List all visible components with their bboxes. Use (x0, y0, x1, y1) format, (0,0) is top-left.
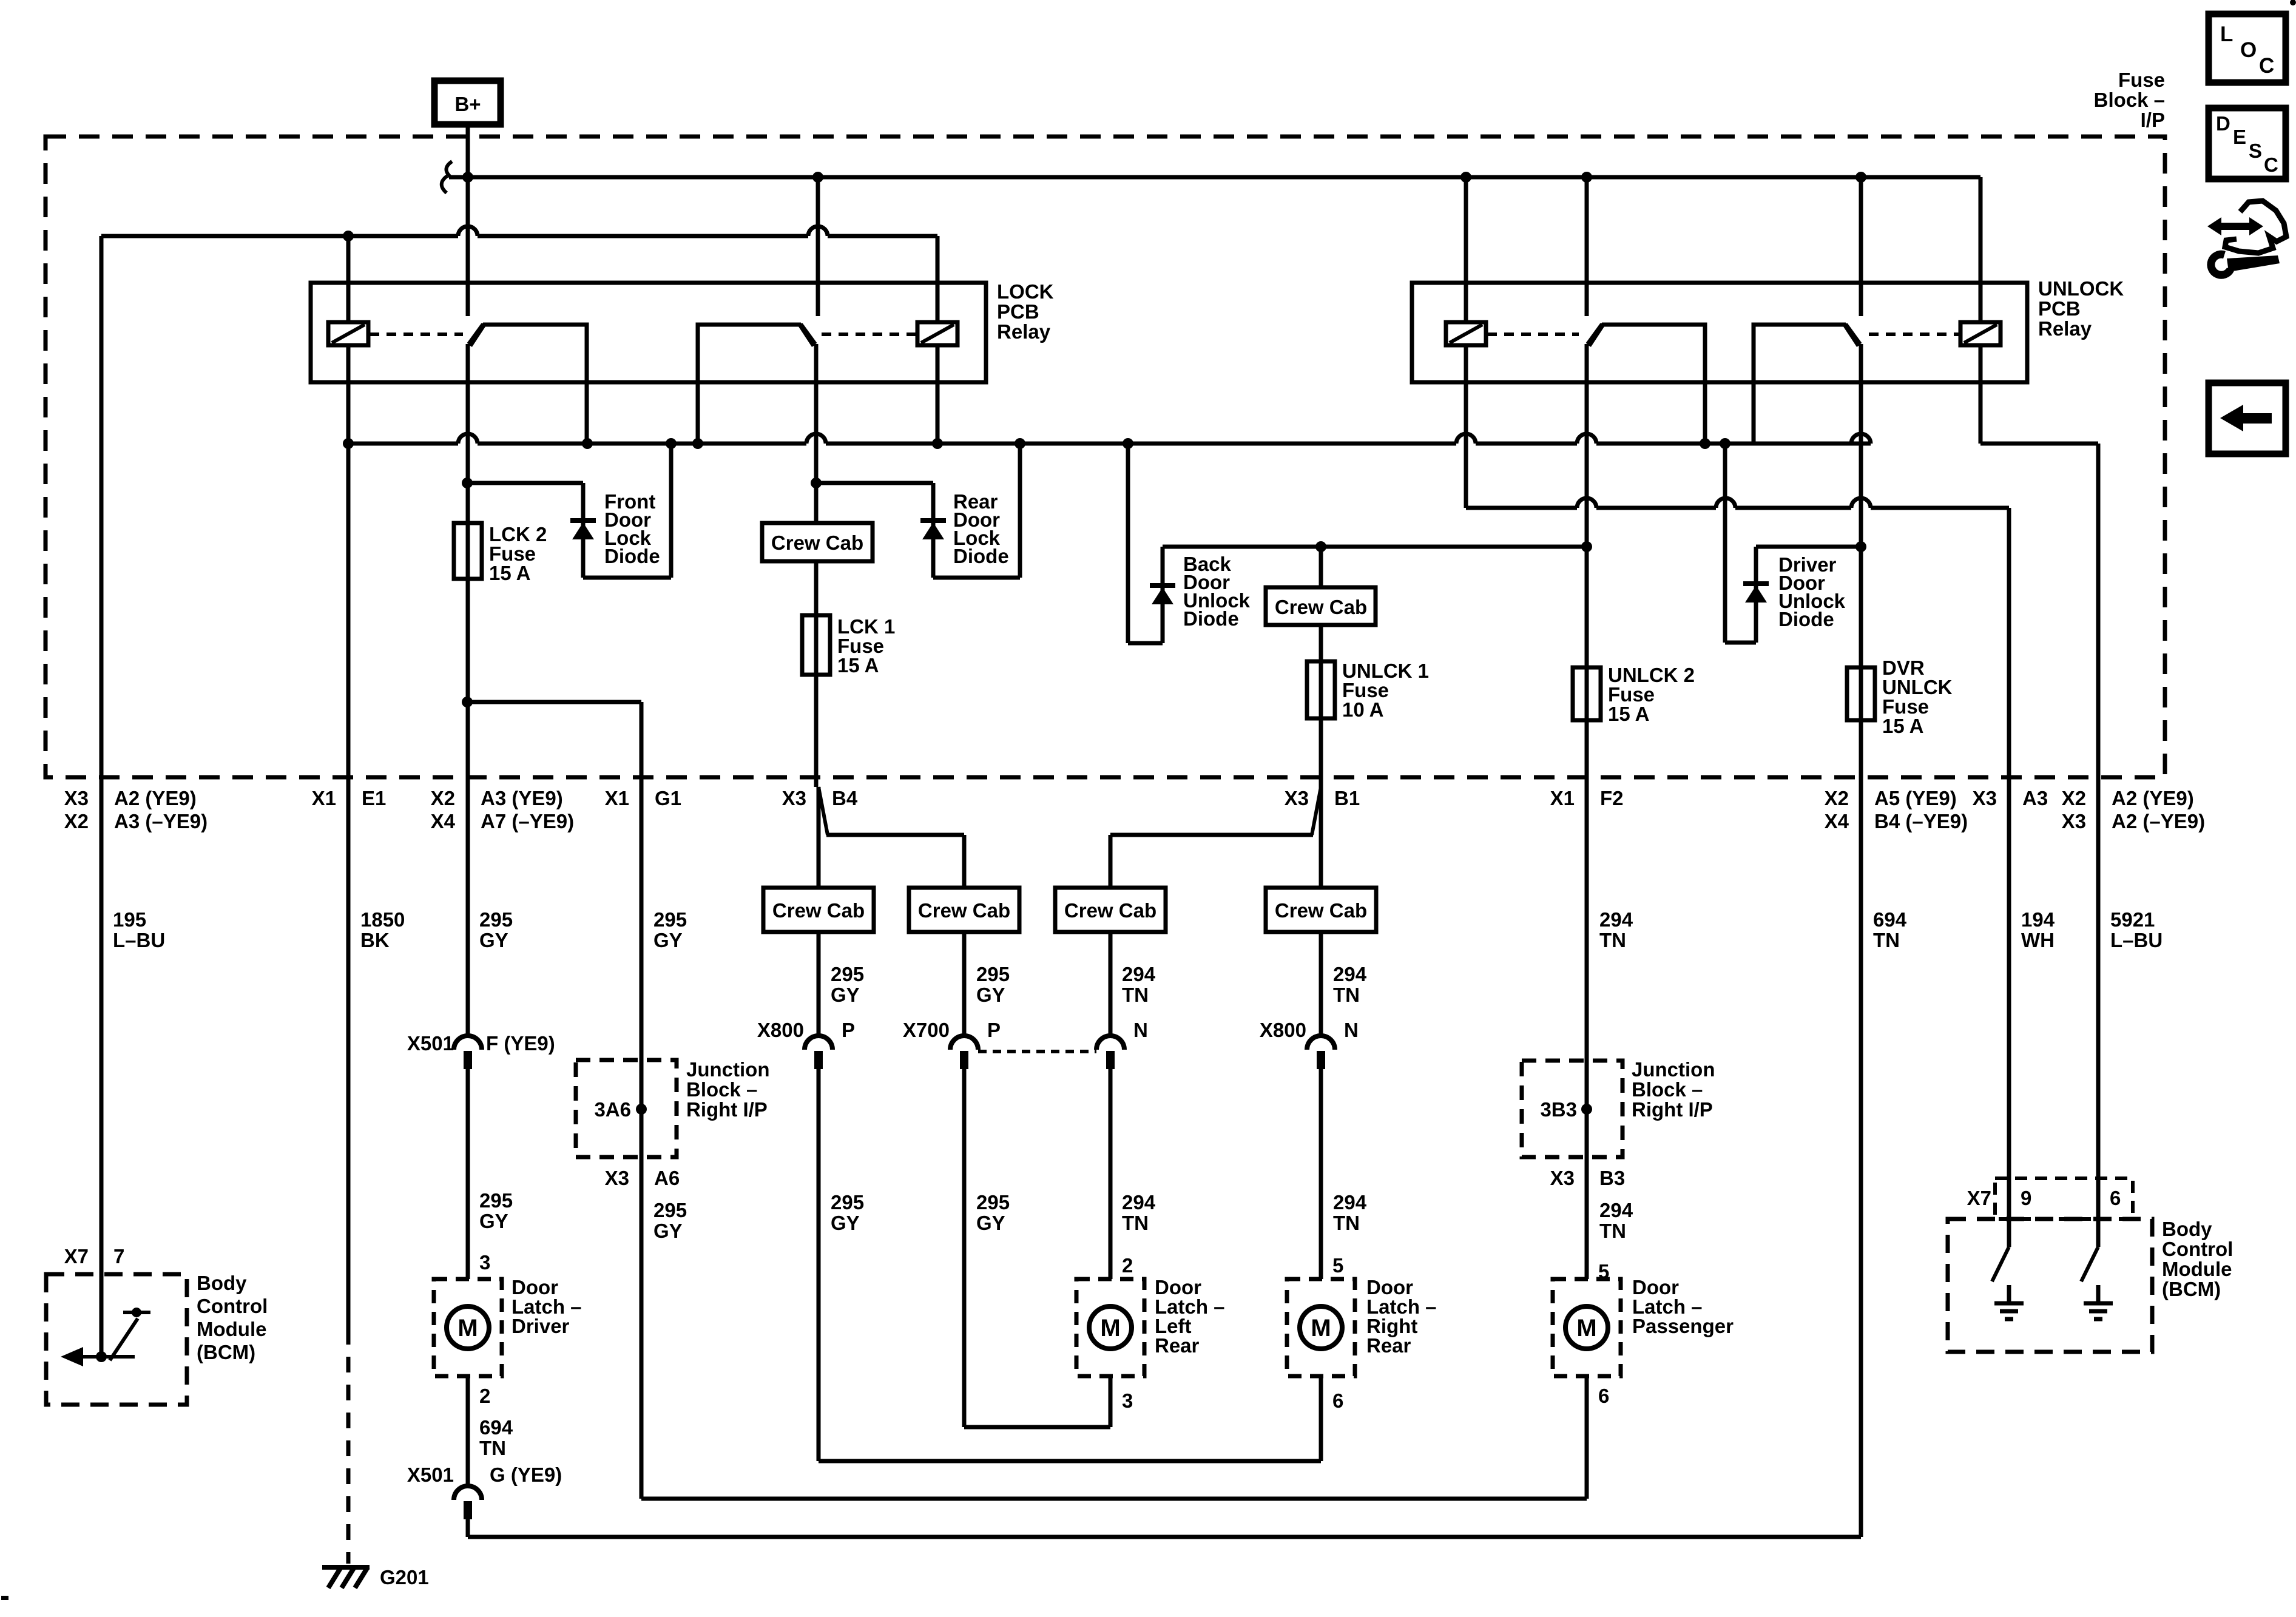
dashed actuator line unlock sw2 (1869, 333, 1960, 336)
wire DVR column through DVR UNLCK fuse (1859, 547, 1863, 787)
component box Crew Cab row2 #3 (1055, 888, 1166, 932)
fuse UNLCK 1 10A (1307, 661, 1335, 718)
fuse block I/P dashed border box (46, 137, 2165, 777)
dashed actuator line lock sw2 (822, 333, 916, 336)
wire G1 through junction block (640, 1060, 644, 1157)
svg-text:TN: TN (1599, 1220, 1626, 1242)
connector X700 N (1096, 1036, 1124, 1050)
svg-text:Module: Module (197, 1318, 266, 1340)
svg-text:B4 (–YE9): B4 (–YE9) (1874, 810, 1968, 832)
latch box Door Latch Passenger (dashed) (1553, 1279, 1621, 1376)
motor M right rear (1300, 1306, 1342, 1349)
svg-text:TN: TN (1873, 929, 1900, 951)
svg-text:Crew Cab: Crew Cab (1275, 596, 1367, 618)
wire 1850 BK dashed continuation (346, 1329, 351, 1564)
wire driver diode to DVR column (1756, 545, 1861, 549)
module box Body Control Module left (dashed) (46, 1274, 187, 1405)
wire lock sw2 common below switch to LCK1 junction (814, 344, 819, 523)
wire crew cab #4 down to connector (1319, 932, 1323, 1035)
svg-text:Diode: Diode (1183, 607, 1239, 630)
wire X700N column down to latch LR (1109, 1069, 1113, 1279)
wire jog down to crew cab 2 (962, 835, 967, 888)
wire LCK2 output down to G1 tap and border (466, 579, 470, 787)
wire G1 column to junction block (640, 787, 644, 1060)
svg-text:1850: 1850 (360, 908, 405, 931)
ground symbol in BCM pin 9 (2007, 1285, 2011, 1303)
svg-text:X501: X501 (407, 1463, 454, 1486)
svg-text:WH: WH (2021, 929, 2055, 951)
wire back diode bus drop (1126, 444, 1130, 643)
wire driver diode up leg (1754, 547, 1758, 643)
svg-text:C: C (2264, 154, 2278, 176)
node dot bus lock sw1 output (582, 438, 593, 449)
junction block 2 Right I/P (dashed box) (1522, 1061, 1622, 1157)
latch box Door Latch Driver (dashed) (434, 1279, 502, 1376)
svg-text:15 A: 15 A (489, 562, 530, 584)
wire driver 694 TN to link (466, 1519, 470, 1537)
svg-text:Fuse: Fuse (2118, 69, 2165, 91)
svg-text:PCB: PCB (997, 300, 1039, 323)
node dot 3A6 (636, 1104, 647, 1115)
svg-text:X2: X2 (64, 810, 89, 832)
node dot bus back diode tap (1123, 438, 1133, 449)
svg-text:195: 195 (113, 908, 146, 931)
latch box Door Latch Left Rear (dashed) (1076, 1279, 1144, 1376)
coil UNLOCK relay right (K2b) (1960, 322, 2001, 345)
wire rear door lock diode top (816, 481, 933, 485)
page artifact dash bottom left (1, 1596, 8, 1600)
wire B4 straight down (817, 787, 821, 888)
wire crew cab #2 down to connector (962, 932, 967, 1035)
svg-text:(BCM): (BCM) (197, 1341, 255, 1363)
ground bus y=731 with hops (348, 442, 458, 446)
svg-text:A7 (–YE9): A7 (–YE9) (481, 810, 574, 832)
svg-text:C: C (2259, 54, 2274, 78)
svg-text:294: 294 (1122, 963, 1156, 985)
svg-text:X1: X1 (312, 787, 336, 809)
svg-text:X3: X3 (1285, 787, 1309, 809)
svg-text:Right I/P: Right I/P (686, 1098, 768, 1121)
svg-text:5: 5 (1332, 1254, 1343, 1277)
wire RR latch bottom (1319, 1376, 1323, 1461)
svg-text:GY: GY (479, 929, 508, 951)
svg-text:6: 6 (2110, 1187, 2121, 1209)
module box Body Control Module right (dashed) (1948, 1219, 2152, 1352)
lock sw1 movable contact arm (468, 324, 483, 344)
wire lock sw1 common from B+ (466, 177, 470, 316)
unlock sw2 fixed contact plateau to output (1754, 325, 1859, 444)
svg-text:A5 (YE9): A5 (YE9) (1874, 787, 1957, 809)
svg-text:A3: A3 (2022, 787, 2048, 809)
wire lock coil2 bottom to ground bus (936, 345, 940, 444)
svg-text:Block –: Block – (1632, 1078, 1703, 1101)
svg-text:294: 294 (1333, 1191, 1367, 1214)
power terminal B+ box (434, 81, 501, 124)
node dot bus unlock sw1 output (1700, 438, 1710, 449)
wire unlock coil2 bottom to 5921 link (1979, 345, 1983, 444)
svg-text:P: P (987, 1019, 1001, 1041)
dashed actuator line unlock sw1 (1487, 333, 1579, 336)
svg-text:Junction: Junction (1632, 1058, 1715, 1081)
svg-text:M: M (1100, 1315, 1120, 1342)
connector X501 F(YE9) (454, 1036, 482, 1050)
svg-text:GY: GY (831, 1212, 860, 1234)
wire 1850 BK column solid part (346, 444, 351, 1329)
svg-text:Crew Cab: Crew Cab (771, 532, 863, 554)
svg-text:295: 295 (653, 1199, 687, 1221)
svg-text:BK: BK (360, 929, 390, 951)
node dot bus lock coil2 (932, 438, 943, 449)
svg-text:X2: X2 (2062, 787, 2086, 809)
svg-text:N: N (1133, 1019, 1148, 1041)
svg-text:E: E (2233, 126, 2246, 148)
svg-text:Crew Cab: Crew Cab (1275, 899, 1367, 922)
wire X800P column down (817, 1069, 821, 1461)
BCM output arrow (82, 1355, 135, 1359)
svg-text:Relay: Relay (997, 320, 1051, 343)
node dot B+ junction (462, 172, 473, 183)
svg-text:S: S (2249, 140, 2262, 162)
svg-text:X700: X700 (903, 1019, 950, 1041)
wire lock coil1 top (346, 236, 351, 322)
wire F2 column through UNLCK2 fuse (1585, 547, 1589, 787)
component box Crew Cab row2 #1 (763, 888, 874, 932)
connector X800 N (1307, 1036, 1335, 1050)
svg-text:A3 (YE9): A3 (YE9) (481, 787, 563, 809)
svg-text:F2: F2 (1600, 787, 1624, 809)
wire driver diode bottom (1725, 641, 1756, 645)
wire passenger column to latch (1585, 1157, 1589, 1279)
node dot lock sw2 common at B+ bus (812, 172, 823, 183)
wire unlock coil2 to 5921 column (1980, 442, 2098, 446)
wire unlock rail y=901 (1163, 545, 1587, 549)
BCM switch blade 194WH (1992, 1247, 2009, 1281)
svg-text:294: 294 (1122, 1191, 1156, 1214)
svg-text:A6: A6 (654, 1167, 680, 1189)
wire unlock coil1 top (1464, 177, 1468, 322)
unlock sw1 fixed contact plateau to output (1589, 325, 1705, 444)
wire X800N column down to latch RR (1319, 1069, 1323, 1279)
node dot bus front diode return (666, 438, 677, 449)
svg-text:X7: X7 (1967, 1187, 1991, 1209)
svg-text:Rear: Rear (1366, 1334, 1411, 1357)
svg-text:Body: Body (197, 1272, 247, 1294)
svg-text:9: 9 (2021, 1187, 2031, 1209)
svg-text:TN: TN (1599, 929, 1626, 951)
wire F2 column to junction block 2 (1585, 787, 1589, 1061)
wire G1 column down to border (640, 702, 644, 787)
wire passenger latch bottom to G1 link (1585, 1376, 1589, 1499)
node dot 295GY G1 tap (462, 697, 473, 707)
BCM switch blade (110, 1318, 138, 1360)
svg-text:694: 694 (479, 1416, 513, 1439)
wire B+ bus corner down to unlock coil2 (1979, 177, 1983, 322)
svg-text:X4: X4 (1825, 810, 1849, 832)
node dot bus lock sw2 output (692, 438, 703, 449)
wire front diode down leg (581, 483, 586, 578)
svg-text:N: N (1344, 1019, 1359, 1041)
icon box back arrow (2209, 383, 2286, 454)
svg-text:295: 295 (976, 1191, 1010, 1214)
svg-text:7: 7 (113, 1245, 124, 1268)
wire B1 column through crew cab to UNLCK1 (1319, 547, 1323, 587)
svg-text:GY: GY (976, 984, 1005, 1006)
wire X700P to LR link (964, 1425, 1110, 1430)
wire 195 L-BU column (100, 236, 104, 1274)
svg-text:X800: X800 (757, 1019, 804, 1041)
dashed link X700 P-N (978, 1050, 1096, 1053)
svg-text:X1: X1 (605, 787, 629, 809)
svg-text:295: 295 (831, 1191, 864, 1214)
diode Rear Door Lock Diode (920, 518, 946, 523)
node dot LCK1/rear-diode junction (811, 478, 822, 488)
node dot unlock rail at F2 column (1581, 541, 1592, 552)
svg-text:GY: GY (653, 929, 683, 951)
svg-text:A2 (–YE9): A2 (–YE9) (2112, 810, 2205, 832)
svg-text:TN: TN (1122, 984, 1149, 1006)
fuse DVR UNLCK 15A (1847, 667, 1875, 720)
wire unlock sw2 common below switch to DVR UNLCK junction (1859, 344, 1863, 547)
node dot unlock sw1 common at B+ bus (1581, 172, 1592, 183)
svg-text:X1: X1 (1550, 787, 1575, 809)
svg-text:15 A: 15 A (1608, 703, 1649, 725)
wire lock coil1 bottom to ground bus (346, 345, 351, 444)
motor M driver (447, 1306, 489, 1349)
svg-text:X3: X3 (1973, 787, 1997, 809)
wire wire2 corner down to lock coil2 (936, 236, 940, 322)
unlock sw1 movable contact arm (1587, 324, 1602, 344)
svg-text:GY: GY (831, 984, 860, 1006)
svg-text:Diode: Diode (1778, 608, 1834, 630)
svg-text:L: L (2220, 22, 2233, 46)
svg-text:TN: TN (1333, 984, 1360, 1006)
ground symbol in BCM pin 6 (2096, 1285, 2101, 1303)
svg-text:3A6: 3A6 (594, 1098, 631, 1121)
splice continuation mark at B+ junction (446, 161, 452, 177)
BCM switch fixed contact stub (123, 1311, 150, 1314)
wire DVR column down to 694 link (1859, 787, 1863, 1537)
svg-text:X3: X3 (2062, 810, 2086, 832)
svg-text:Crew Cab: Crew Cab (772, 899, 865, 922)
svg-text:D: D (2216, 112, 2230, 135)
wire rear diode bottom (933, 576, 1020, 580)
wire B1 jog horizontal (1110, 833, 1313, 837)
svg-text:294: 294 (1599, 908, 1633, 931)
connector box X7 (dashed) (1995, 1178, 2133, 1219)
svg-text:PCB: PCB (2038, 297, 2081, 320)
wire X800P to RR link y=2408 (819, 1459, 1321, 1463)
svg-text:L–BU: L–BU (113, 929, 165, 951)
node dot bus rear diode return (1015, 438, 1025, 449)
dashed actuator line lock sw1 (370, 333, 463, 336)
node dot unlock coil1 at B+ bus (1460, 172, 1471, 183)
connector X800 P (805, 1036, 832, 1050)
fuse LCK 1 15A (802, 615, 830, 675)
svg-text:X2: X2 (431, 787, 455, 809)
svg-text:294: 294 (1599, 1199, 1633, 1221)
coil LOCK relay left (K1a) (328, 322, 368, 345)
svg-text:TN: TN (1122, 1212, 1149, 1234)
latch box Door Latch Right Rear (dashed) (1287, 1279, 1355, 1376)
connector X700 P (950, 1036, 978, 1050)
svg-text:6: 6 (1598, 1385, 1609, 1407)
svg-text:O: O (2240, 38, 2257, 62)
relay box UNLOCK PCB Relay (1412, 283, 2027, 382)
svg-text:Diode: Diode (953, 545, 1009, 567)
wire jog down to crew cab 3 (1109, 835, 1113, 888)
wire unlock coil1 bottom through bus hop to 194WH link (1464, 345, 1468, 508)
diode Front Door Lock Diode (570, 518, 596, 523)
wire driver latch to X501 G (466, 1376, 470, 1485)
connector X501 G(YE9) (454, 1486, 482, 1500)
icon box LOC (2209, 14, 2286, 83)
svg-text:B4: B4 (832, 787, 858, 809)
svg-text:G201: G201 (380, 1566, 429, 1588)
fuse LCK 2 15A (454, 523, 482, 579)
wire unlock sw2 common from B+ bus (1859, 177, 1863, 316)
wire driver diode bus drop (1723, 444, 1727, 643)
svg-text:Control: Control (2162, 1238, 2233, 1260)
svg-text:5921: 5921 (2110, 908, 2155, 931)
svg-text:L–BU: L–BU (2110, 929, 2163, 951)
component box Crew Cab (unlock feed) (1266, 587, 1376, 625)
wire B4 jog horizontal (826, 833, 964, 837)
wire G1 column down to passenger link (640, 1157, 644, 1499)
svg-text:Right I/P: Right I/P (1632, 1098, 1713, 1121)
svg-text:B3: B3 (1599, 1167, 1625, 1189)
diode Back Door Unlock Diode (1150, 583, 1175, 588)
wire rear diode down leg (931, 483, 936, 578)
wire G1 tap horizontal (467, 700, 641, 704)
page artifact dot top right (2290, 0, 2296, 5)
wire B1 jog diagonal (1312, 787, 1321, 835)
node dot unlock rail at B1 column (1315, 541, 1326, 552)
component box Crew Cab (lock feed) (762, 523, 873, 561)
wire back diode up leg (1161, 547, 1165, 643)
svg-text:GY: GY (653, 1220, 683, 1242)
svg-text:295: 295 (976, 963, 1010, 985)
wire unlock sw1 common from B+ (1585, 177, 1589, 316)
wire driver column to X501 F (466, 787, 470, 1035)
svg-text:X3: X3 (605, 1167, 629, 1189)
BCM switch blade 5921 (2081, 1247, 2098, 1281)
wire X700P column down (962, 1069, 967, 1427)
svg-text:GY: GY (976, 1212, 1005, 1234)
coil UNLOCK relay left (K2a) (1446, 322, 1486, 345)
svg-text:X3: X3 (1550, 1167, 1575, 1189)
svg-text:X4: X4 (431, 810, 456, 832)
wire 694 TN link to DVR UNLCK column (468, 1535, 1861, 1539)
svg-text:M: M (458, 1315, 478, 1342)
svg-text:X501: X501 (407, 1032, 454, 1055)
svg-text:6: 6 (1332, 1389, 1343, 1412)
wire F2 through junction block 2 (1585, 1061, 1589, 1157)
wire front diode bottom (583, 576, 671, 580)
svg-text:X2: X2 (1825, 787, 1849, 809)
wire 194WH link y=837 with hops (1466, 506, 1577, 510)
lock sw2 fixed contact plateau to output (698, 325, 814, 444)
motor M left rear (1089, 1306, 1132, 1349)
wire LR latch bottom (1109, 1376, 1113, 1427)
svg-text:Module: Module (2162, 1258, 2232, 1280)
svg-text:Control: Control (197, 1295, 268, 1317)
junction block Right I/P (dashed box) (576, 1060, 677, 1157)
wire2 y=389 from left column to LOCK coil2, hops over 771 and 1348 (101, 234, 458, 238)
node dot DVR UNLCK junction (1855, 541, 1866, 552)
svg-text:3B3: 3B3 (1540, 1098, 1577, 1121)
wire lock sw2 common from B+ bus (816, 177, 820, 316)
coil LOCK relay right (K1b) (917, 322, 957, 345)
svg-text:294: 294 (1333, 963, 1367, 985)
svg-text:X3: X3 (64, 787, 89, 809)
svg-text:A2 (YE9): A2 (YE9) (114, 787, 197, 809)
wire rear diode return up to bus (1018, 444, 1022, 578)
svg-text:G (YE9): G (YE9) (490, 1463, 562, 1486)
wire crew cab box through LCK1 fuse to border (814, 561, 819, 787)
svg-text:Crew Cab: Crew Cab (1064, 899, 1156, 922)
wire BCM input to node (100, 1274, 104, 1357)
lock sw1 fixed contact plateau to output (470, 325, 587, 444)
svg-text:194: 194 (2021, 908, 2055, 931)
svg-text:I/P: I/P (2141, 109, 2165, 131)
svg-text:295: 295 (479, 1189, 513, 1212)
svg-text:Block –: Block – (686, 1078, 757, 1101)
wire G1-passenger link y=2470 (641, 1497, 1587, 1501)
wire driver column X501F to latch (466, 1069, 470, 1279)
svg-text:10 A: 10 A (1342, 698, 1383, 721)
motor M passenger (1565, 1306, 1608, 1349)
wire front diode return up to bus (669, 444, 674, 578)
node dot LCK2/front-diode junction (462, 478, 473, 488)
svg-text:Driver: Driver (512, 1315, 570, 1337)
svg-text:G1: G1 (655, 787, 681, 809)
svg-text:Crew Cab: Crew Cab (918, 899, 1010, 922)
node dot bus-E1/lock coil1 (343, 438, 354, 449)
component box Crew Cab row2 #2 (909, 888, 1019, 932)
svg-text:M: M (1576, 1315, 1596, 1342)
svg-text:B+: B+ (454, 93, 481, 115)
svg-text:M: M (1311, 1315, 1331, 1342)
diode Driver Door Unlock Diode (1743, 581, 1769, 586)
node dot lock coil1 tap on wire2 (343, 231, 354, 241)
ground G201 symbol (322, 1565, 370, 1570)
node dot 3B3 (1581, 1104, 1592, 1115)
svg-text:295: 295 (831, 963, 864, 985)
wire 5921 L-BU column to BCM (2096, 444, 2101, 1247)
component box Crew Cab row2 #4 (1266, 888, 1376, 932)
svg-text:GY: GY (479, 1210, 508, 1232)
svg-text:295: 295 (479, 908, 513, 931)
lock sw2 movable contact arm (801, 324, 815, 344)
svg-text:Junction: Junction (686, 1058, 770, 1081)
svg-text:A3 (–YE9): A3 (–YE9) (114, 810, 208, 832)
wire back diode bottom (1128, 641, 1163, 646)
svg-text:TN: TN (479, 1437, 506, 1459)
icon box DESC (2209, 108, 2286, 179)
svg-text:Relay: Relay (2038, 317, 2092, 340)
unlock sw2 movable contact arm (1846, 324, 1860, 344)
wire front door lock diode top (467, 481, 583, 485)
svg-text:E1: E1 (362, 787, 386, 809)
svg-text:(BCM): (BCM) (2162, 1278, 2221, 1300)
svg-text:X800: X800 (1260, 1019, 1306, 1041)
svg-text:A2 (YE9): A2 (YE9) (2112, 787, 2194, 809)
node dot BCM driver node (96, 1351, 107, 1362)
wire unlock sw1 common below switch to y901 junction (1585, 344, 1589, 547)
wire B+ bus y=292 to unlock side (449, 175, 1980, 180)
svg-text:3: 3 (479, 1251, 490, 1274)
svg-text:UNLOCK: UNLOCK (2038, 277, 2124, 300)
